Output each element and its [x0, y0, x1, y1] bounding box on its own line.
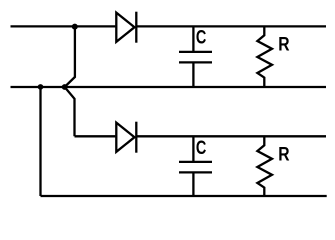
svg-text:R: R — [278, 33, 289, 55]
svg-text:C: C — [196, 25, 207, 48]
svg-text:C: C — [196, 136, 207, 159]
svg-text:R: R — [278, 143, 289, 165]
